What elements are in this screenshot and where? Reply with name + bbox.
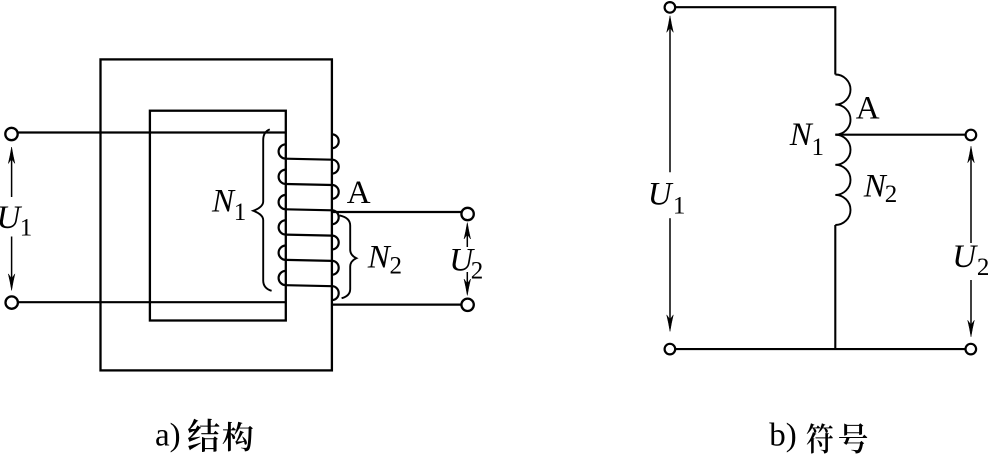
svg-text:A: A <box>856 90 880 126</box>
terminal: right top (symbol) <box>966 130 977 141</box>
terminal: bottom output (structure) <box>461 299 473 311</box>
terminal: bottom-left input <box>6 296 18 308</box>
wire: top supply lead <box>18 131 286 133</box>
svg-text:2: 2 <box>885 181 898 208</box>
svg-text:1: 1 <box>20 214 33 241</box>
terminal: top-left input <box>5 128 17 140</box>
terminal: top-left (symbol) <box>665 2 676 13</box>
svg-text:2: 2 <box>390 253 403 280</box>
winding front diagonals crossing the limb <box>286 159 332 287</box>
iron core window (inner rectangle) <box>150 111 286 321</box>
svg-text:U: U <box>952 239 978 275</box>
svg-text:1: 1 <box>234 199 247 226</box>
wire: winding bottom to output <box>332 304 461 306</box>
svg-text:b): b) <box>769 418 797 454</box>
terminal: bottom-left (symbol) <box>665 344 676 355</box>
wire: top lead (symbol) <box>675 7 835 74</box>
U2 voltage arrow (symbol) <box>968 146 975 163</box>
winding symbol: 5 semicircular bumps <box>835 75 850 226</box>
terminal: top output (structure) <box>461 208 473 220</box>
iron core outer edge <box>101 59 332 370</box>
winding front arcs, right side (7 half-turn bumps) <box>332 134 339 300</box>
terminal: bottom-right (symbol) <box>966 344 977 355</box>
svg-text:1: 1 <box>812 134 825 161</box>
svg-text:U: U <box>648 177 674 213</box>
svg-text:N: N <box>789 117 814 153</box>
svg-text:2: 2 <box>977 254 990 281</box>
U1 voltage arrow (symbol) <box>667 16 674 33</box>
wire: winding bottom lead (symbol) <box>834 225 836 349</box>
U1 voltage arrow (structure) <box>11 158 13 197</box>
brace for N1 (points left) <box>253 129 271 290</box>
wire: tap A to right terminal (symbol) <box>835 134 965 136</box>
svg-text:A: A <box>347 175 371 211</box>
wire: bottom supply lead <box>18 301 286 303</box>
brace for N2 (points right) <box>340 215 357 298</box>
wire: tap A to output <box>332 211 461 213</box>
svg-text:N: N <box>367 240 392 276</box>
U2 voltage arrow (structure) <box>464 223 471 240</box>
wire: bottom rail (symbol) <box>675 348 965 350</box>
winding front arcs, left side (6 half-turn bumps) <box>279 144 286 285</box>
svg-text:2: 2 <box>471 258 484 285</box>
svg-text:N: N <box>211 183 236 219</box>
svg-text:1: 1 <box>673 192 686 219</box>
svg-text:a): a) <box>155 417 181 453</box>
